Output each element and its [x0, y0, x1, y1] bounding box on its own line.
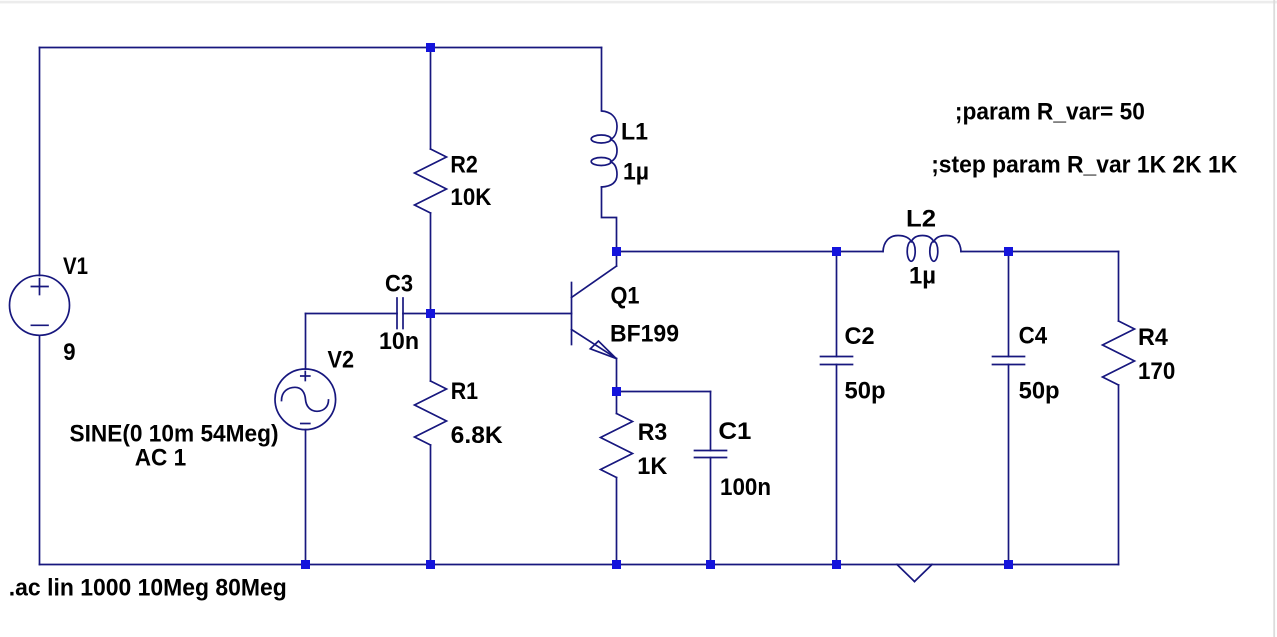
svg-text:100n: 100n	[720, 474, 771, 501]
wire bottom rail	[40, 564, 1119, 566]
wire R4 top	[1118, 252, 1120, 322]
window border right	[1273, 0, 1275, 637]
wire V1 top lead	[39, 48, 41, 276]
node C1 bottom	[706, 560, 715, 569]
svg-text:Q1: Q1	[611, 283, 640, 310]
svg-text:9: 9	[63, 339, 75, 366]
wire collector rail	[617, 251, 884, 253]
wire C3 left lead	[306, 313, 398, 315]
svg-text:.ac lin 1000 10Meg 80Meg: .ac lin 1000 10Meg 80Meg	[9, 574, 287, 601]
wire C3 right lead	[403, 313, 431, 315]
voltage source V1	[10, 275, 70, 335]
resistor R4	[1103, 321, 1135, 385]
wire R2 bottom	[430, 213, 432, 314]
node V2 bottom	[301, 560, 310, 569]
node R1 bottom	[426, 560, 435, 569]
wire C4 bottom lead	[1008, 365, 1010, 565]
svg-text:10n: 10n	[379, 328, 419, 355]
svg-text:10K: 10K	[450, 184, 492, 211]
voltage source V2	[275, 369, 336, 430]
wire C1 top lead	[710, 392, 712, 451]
node base	[426, 309, 435, 318]
svg-text:V2: V2	[328, 347, 355, 374]
svg-text:C3: C3	[385, 271, 413, 298]
capacitor C2	[821, 357, 853, 365]
svg-text:L1: L1	[621, 119, 648, 146]
svg-text:50p: 50p	[845, 377, 886, 404]
svg-text:R1: R1	[451, 378, 478, 405]
svg-text:L2: L2	[906, 206, 936, 233]
svg-text:1µ: 1µ	[623, 159, 649, 186]
wire R1 top	[430, 314, 432, 382]
wire collector stub	[616, 252, 618, 267]
capacitor C3	[397, 298, 403, 329]
svg-text:;param R_var= 50: ;param R_var= 50	[955, 98, 1145, 125]
capacitor C4	[993, 357, 1025, 365]
node top rail / R2	[426, 43, 435, 52]
svg-text:V1: V1	[63, 253, 88, 280]
inductor L2	[883, 236, 961, 262]
wire top rail	[40, 47, 602, 49]
node C2 bottom	[832, 560, 841, 569]
wire R4 bottom	[1118, 385, 1120, 565]
transistor Q1	[572, 266, 617, 359]
resistor R2	[415, 149, 447, 213]
svg-text:C1: C1	[718, 418, 751, 445]
wire L2 right lead	[961, 251, 1119, 253]
node R3 bottom	[612, 560, 621, 569]
wire R1 bottom	[430, 445, 432, 565]
svg-text:R3: R3	[638, 419, 668, 446]
svg-text:C2: C2	[845, 323, 875, 350]
node C4 bottom	[1004, 560, 1013, 569]
window border top	[0, 1, 1277, 4]
wire base	[431, 313, 572, 315]
wire C4 top lead	[1008, 252, 1010, 357]
svg-text:BF199: BF199	[610, 320, 679, 347]
wire V1 bottom lead	[39, 335, 41, 564]
node emitter	[612, 387, 621, 396]
svg-text:50p: 50p	[1019, 378, 1060, 405]
svg-text:1K: 1K	[637, 453, 668, 480]
node collector	[612, 247, 621, 256]
wire L1 top lead	[601, 48, 603, 111]
wire C1 bottom lead	[710, 458, 712, 565]
resistor R3	[601, 414, 633, 478]
svg-text:;step param R_var 1K 2K 1K: ;step param R_var 1K 2K 1K	[931, 151, 1238, 178]
ground	[897, 565, 932, 582]
wire L1 bottom lead	[602, 187, 617, 252]
resistor R1	[415, 381, 447, 445]
wire V2 top lead	[305, 314, 307, 370]
svg-text:6.8K: 6.8K	[451, 422, 504, 449]
node C2 top	[832, 247, 841, 256]
svg-text:C4: C4	[1019, 323, 1048, 350]
svg-text:170: 170	[1138, 358, 1175, 385]
capacitor C1	[695, 451, 727, 458]
wire emitter rail	[617, 391, 711, 393]
inductor L1	[591, 111, 617, 187]
wire C2 bottom lead	[836, 365, 838, 565]
wire R3 top	[616, 392, 618, 414]
svg-text:R2: R2	[450, 152, 477, 179]
svg-text:AC 1: AC 1	[135, 445, 187, 472]
wire R3 bottom	[616, 478, 618, 565]
svg-text:SINE(0 10m 54Meg): SINE(0 10m 54Meg)	[70, 420, 279, 447]
wire emitter stub	[616, 359, 618, 392]
wire R2 top	[430, 48, 432, 150]
svg-text:R4: R4	[1138, 324, 1168, 351]
wire C2 top lead	[836, 252, 838, 357]
svg-text:1µ: 1µ	[909, 263, 936, 290]
wire V2 bottom lead	[305, 430, 307, 565]
node C4 top	[1004, 247, 1013, 256]
